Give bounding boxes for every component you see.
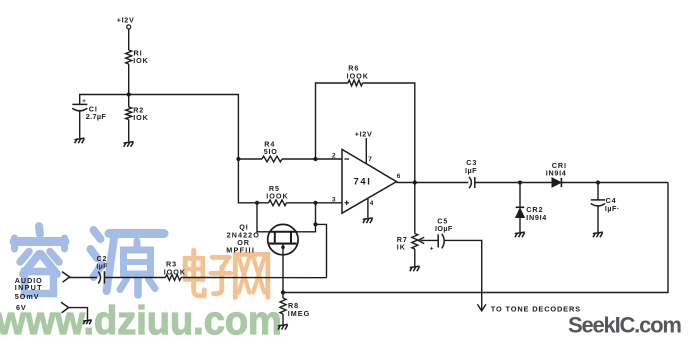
ground R2 <box>124 142 134 147</box>
wire to C4 <box>597 183 599 200</box>
wire to CR2 <box>519 183 521 208</box>
label 741 <box>354 177 372 187</box>
wire C1 to ground <box>79 111 81 138</box>
svg-text:TO TONE DECODERS: TO TONE DECODERS <box>491 304 581 313</box>
capacitor C2 <box>98 271 104 283</box>
svg-text:IOK: IOK <box>133 56 148 65</box>
wire pin4 <box>367 198 369 218</box>
wire bias node to C1 <box>80 95 129 105</box>
label C5 plus <box>430 245 434 252</box>
wire bottom terminal to ground <box>68 308 88 320</box>
op-amp +12V label <box>355 129 373 138</box>
wire R1 to bias node <box>128 64 130 107</box>
svg-text:www.dziuu.com: www.dziuu.com <box>0 299 282 340</box>
+12V supply label <box>117 15 135 24</box>
pin 7 label <box>368 156 372 163</box>
capacitor C3 <box>469 177 475 188</box>
label AUDIO INPUT <box>15 276 43 292</box>
wire output to R7 <box>414 183 416 234</box>
wire drain tap to input line <box>316 224 327 277</box>
watermark char RONG <box>14 226 65 294</box>
label R3 100K <box>164 260 186 277</box>
watermark char ZI <box>211 257 231 293</box>
node bias junction <box>127 92 131 96</box>
op-amp plus sign <box>344 201 349 206</box>
wire C2 to R3 <box>104 277 165 279</box>
wire R5 to pin3 <box>287 202 343 204</box>
resistor R2 <box>126 107 132 119</box>
label CR2 1N914 <box>526 205 547 222</box>
input terminal bottom <box>61 302 69 313</box>
svg-text:+I2V: +I2V <box>117 15 135 24</box>
op-amp U1 741 <box>342 149 397 213</box>
label R7 1K <box>397 235 408 252</box>
label C4 1uF <box>605 196 620 213</box>
pin 3 label <box>332 196 336 203</box>
input terminal top <box>62 272 70 283</box>
label C1 2.7uF <box>86 105 107 121</box>
ground R7 <box>410 266 420 271</box>
svg-text:IN9I4: IN9I4 <box>546 168 567 177</box>
transistor Q1 body <box>268 224 298 254</box>
label R2 10K <box>133 106 148 122</box>
wire input to C2 <box>69 277 97 279</box>
R7 wiper arrow <box>418 237 438 243</box>
svg-text:C2: C2 <box>97 256 108 263</box>
wire C4 to ground <box>597 206 599 232</box>
watermark char DIAN <box>185 251 204 296</box>
diode CR1 <box>552 178 561 187</box>
label C3 1uF <box>465 158 477 175</box>
ground R8 <box>278 324 288 329</box>
wire AGC loop <box>283 183 668 293</box>
ground pin4 <box>363 218 373 223</box>
svg-text:IµF·: IµF· <box>605 204 620 213</box>
label R8 1MEG <box>288 301 310 318</box>
node drain tap <box>313 222 317 226</box>
op-amp minus sign <box>344 158 349 160</box>
node R8 top <box>281 290 285 294</box>
wire gate <box>257 203 271 232</box>
wire to R4 <box>238 158 262 160</box>
node R4 left <box>236 157 240 161</box>
svg-text:IK: IK <box>397 243 406 252</box>
wire R7 to ground <box>414 249 416 266</box>
node Q1 source <box>281 245 285 249</box>
wire C5 to decoder tap <box>445 240 482 309</box>
svg-text:5IO: 5IO <box>264 147 278 156</box>
node output <box>413 180 417 184</box>
label R1 10K <box>133 48 148 65</box>
arrow to tone decoders <box>477 304 486 311</box>
svg-text:2: 2 <box>332 152 336 159</box>
svg-text:IOµF: IOµF <box>435 224 453 233</box>
wire R3 to drain tap <box>181 277 327 279</box>
wire +12V to R1 <box>128 29 130 50</box>
wire R4 node down to R5 <box>238 159 268 203</box>
wire feedback left vertical <box>316 83 349 159</box>
svg-text:SeekIC.com: SeekIC.com <box>568 313 681 338</box>
node C4 tap <box>596 180 600 184</box>
svg-text:IN9I4: IN9I4 <box>526 213 547 222</box>
svg-text:IOOK: IOOK <box>266 191 288 200</box>
wire drain <box>297 203 316 232</box>
resistor R7 <box>412 234 418 249</box>
ground CR2 <box>515 232 525 237</box>
wire feedback right vertical <box>363 83 415 183</box>
pin 4 label <box>370 200 374 207</box>
svg-text:6V: 6V <box>16 303 27 312</box>
label MPF111 <box>226 246 255 255</box>
svg-text:5OmV: 5OmV <box>15 292 40 301</box>
+12V terminal <box>127 25 131 29</box>
watermark www.dziuu.com <box>0 299 282 340</box>
wire R4 to pin2 <box>282 158 342 160</box>
wire CR1 to C4 node <box>561 182 668 184</box>
svg-text:74I: 74I <box>354 177 372 187</box>
node CR2 tap <box>518 180 522 184</box>
wire CR2 to ground <box>519 218 521 233</box>
svg-text:4: 4 <box>370 200 374 207</box>
node pin3 drain <box>313 201 317 205</box>
watermark char WANG <box>235 254 267 297</box>
wire C3 to CR1 <box>475 182 552 184</box>
node gate tap <box>255 201 259 205</box>
resistor R5 <box>269 200 287 206</box>
label CR1 1N914 <box>546 161 567 178</box>
ground C4 <box>593 232 603 237</box>
label Q1 <box>239 223 248 232</box>
node pin2 feedback <box>313 157 317 161</box>
svg-text:7: 7 <box>368 156 372 163</box>
wire node to R8 <box>282 293 284 299</box>
capacitor C4 <box>591 200 605 206</box>
svg-text:IOOK: IOOK <box>347 71 369 80</box>
svg-text:IMEG: IMEG <box>288 309 310 318</box>
label C2 1uF <box>96 256 108 271</box>
wire R2 to ground <box>128 120 130 142</box>
label 6V <box>16 303 27 312</box>
label 50mV <box>15 292 40 301</box>
svg-text:6: 6 <box>397 173 401 180</box>
transistor Q1 internals <box>269 232 297 244</box>
resistor R3 <box>166 275 181 281</box>
svg-text:+: + <box>82 99 86 105</box>
label R5 100K <box>266 184 288 201</box>
svg-text:+I2V: +I2V <box>355 129 373 138</box>
label R4 510 <box>264 139 278 156</box>
ground C1 <box>75 138 85 143</box>
svg-text:2.7µF: 2.7µF <box>86 112 107 121</box>
svg-text:IµF: IµF <box>465 166 477 175</box>
svg-text:MPFIII: MPFIII <box>226 246 255 255</box>
pin 6 label <box>397 173 401 180</box>
resistor R6 <box>348 80 363 86</box>
svg-text:3: 3 <box>332 196 336 203</box>
capacitor C1 <box>72 99 87 111</box>
wire bias node to R4 node <box>129 95 239 160</box>
label TO TONE DECODERS <box>491 304 581 313</box>
ground input <box>83 320 92 324</box>
label C5 10uF <box>435 216 453 233</box>
resistor R1 <box>126 50 132 64</box>
wire output <box>397 182 469 184</box>
svg-text:IOK: IOK <box>133 113 148 122</box>
svg-text:+: + <box>430 245 434 252</box>
resistor R8 <box>280 298 286 314</box>
watermark SeekIC.com <box>568 313 681 338</box>
pin 2 label <box>332 152 336 159</box>
resistor R4 <box>262 156 282 162</box>
svg-text:IµF: IµF <box>96 264 108 271</box>
label R6 100K <box>347 64 369 81</box>
label OR <box>237 238 250 247</box>
wire Q1 source to R8 <box>282 244 284 293</box>
diode CR2 <box>516 207 525 217</box>
wire R8 to ground <box>282 314 284 324</box>
label 2N4220 <box>227 230 260 239</box>
watermark char YUAN <box>91 230 165 295</box>
capacitor C5 <box>438 234 444 249</box>
wire pin7 supply <box>365 138 367 164</box>
svg-text:IOOK: IOOK <box>164 267 186 276</box>
